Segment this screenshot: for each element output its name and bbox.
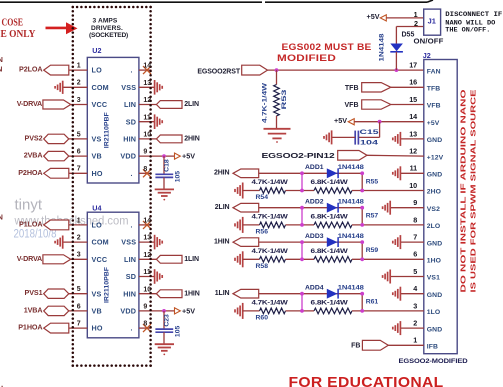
svg-text:R60: R60 [256,315,269,322]
svg-text:PVS1: PVS1 [25,288,43,297]
svg-text:VS: VS [92,289,102,298]
svg-text:.: . [1,380,3,387]
svg-text:1HIN: 1HIN [184,290,200,297]
svg-text:SD: SD [126,272,136,281]
svg-text:1: 1 [413,336,417,345]
svg-text:N: N [0,55,3,64]
svg-text:N: N [0,213,3,222]
svg-text:14: 14 [143,63,151,70]
svg-text:12: 12 [409,147,417,156]
svg-text:1N4148: 1N4148 [338,164,364,171]
svg-text:2: 2 [414,19,418,28]
svg-text:VFB: VFB [427,103,441,110]
svg-text:DRIVERS.: DRIVERS. [91,25,123,32]
svg-text:V-DRVA: V-DRVA [17,99,42,108]
svg-text:1HO: 1HO [427,258,441,265]
svg-text:4.7K-1/4W: 4.7K-1/4W [252,300,289,307]
svg-text:VCC: VCC [92,255,108,264]
svg-text:104: 104 [360,140,378,147]
svg-text:N: N [0,65,2,74]
svg-text:VSS: VSS [121,238,136,247]
svg-text:7: 7 [413,233,417,242]
svg-text:1LO: 1LO [427,309,441,316]
svg-text:2LIN: 2LIN [215,204,230,211]
svg-text:2HIN: 2HIN [214,170,230,177]
svg-text:R56: R56 [256,229,269,236]
svg-text:ADD4: ADD4 [305,284,324,291]
svg-text:12: 12 [143,97,151,104]
svg-text:10: 10 [143,132,151,139]
svg-text:9: 9 [143,149,147,156]
svg-text:4: 4 [413,284,417,293]
svg-text:EGSOO2-PIN12: EGSOO2-PIN12 [262,153,335,160]
svg-text:EGSOO2-MODIFIED: EGSOO2-MODIFIED [399,358,468,365]
svg-text:8: 8 [143,321,147,328]
svg-text:4.7K-1/4W: 4.7K-1/4W [252,179,289,186]
svg-text:1N4148: 1N4148 [338,233,364,240]
svg-text:HO: HO [92,324,103,333]
svg-text:COM: COM [92,238,109,247]
svg-text:LIN: LIN [124,100,136,109]
svg-text:J2: J2 [423,51,431,60]
svg-text:6: 6 [413,250,417,259]
svg-text:ADD3: ADD3 [305,233,324,240]
svg-text:.: . [131,171,133,178]
svg-text:R61: R61 [366,299,379,306]
svg-text:7: 7 [77,321,81,328]
svg-text:U4: U4 [92,204,101,213]
svg-text:6.8K-1/4W: 6.8K-1/4W [311,179,349,186]
svg-text:6: 6 [77,303,81,310]
svg-text:1N4148: 1N4148 [378,33,385,61]
svg-text:8: 8 [143,166,147,173]
svg-text:13: 13 [143,80,151,87]
svg-text:4.7K-1/4W: 4.7K-1/4W [261,82,268,123]
svg-text:TFB: TFB [345,85,359,92]
svg-text:.: . [131,222,133,229]
svg-text:6.8K-1/4W: 6.8K-1/4W [311,214,349,221]
svg-text:COSE: COSE [2,17,24,28]
svg-text:HIN: HIN [123,289,136,298]
svg-text:VB: VB [92,307,102,316]
svg-text:13: 13 [409,129,417,138]
svg-text:SD: SD [126,117,136,126]
svg-text:R59: R59 [366,247,379,254]
svg-text:VDD: VDD [120,307,136,316]
svg-text:tinyt: tinyt [15,197,43,214]
svg-text:VS1: VS1 [427,275,440,282]
svg-text:LO: LO [92,221,103,230]
svg-text:10: 10 [409,181,417,190]
svg-text:GND: GND [427,326,442,333]
svg-text:ADD1: ADD1 [305,164,324,171]
svg-text:4.7K-1/4W: 4.7K-1/4W [252,214,289,221]
svg-text:THE ON/OFF.: THE ON/OFF. [445,26,490,33]
svg-text:P1LOA: P1LOA [19,219,42,228]
svg-text:2: 2 [77,80,81,87]
svg-text:EGS002 MUST BE: EGS002 MUST BE [282,42,372,52]
svg-text:C15: C15 [360,129,379,136]
svg-text:3: 3 [413,301,417,310]
svg-text:15: 15 [409,95,417,104]
svg-text:2LIN: 2LIN [184,101,199,108]
svg-text:R57: R57 [366,213,379,220]
svg-text:(SOCKETED): (SOCKETED) [89,32,128,39]
svg-text:+5V: +5V [367,12,380,21]
svg-text:GND: GND [427,172,442,179]
svg-text:2VBA: 2VBA [24,151,43,160]
svg-text:16: 16 [409,78,417,87]
svg-text:1N4148: 1N4148 [338,198,364,205]
svg-text:VS2: VS2 [427,206,440,213]
svg-text:6.8K-1/4W: 6.8K-1/4W [311,248,349,255]
svg-text:11: 11 [410,164,418,173]
svg-text:3: 3 [77,252,81,259]
svg-text:2018/10/8: 2018/10/8 [14,229,57,241]
svg-text:DISCONNECT IF: DISCONNECT IF [445,11,502,18]
svg-text:5: 5 [413,267,417,276]
svg-text:PVS2: PVS2 [25,133,43,142]
svg-text:2: 2 [413,319,417,328]
svg-text:MODIFIED: MODIFIED [277,53,336,63]
svg-text:+5V: +5V [182,307,195,316]
svg-text:GND: GND [427,240,442,247]
svg-text:DO NOT INSTALL IF ARDUINO NANO: DO NOT INSTALL IF ARDUINO NANO [458,89,467,292]
svg-text:5: 5 [77,286,81,293]
svg-text:11: 11 [143,114,151,121]
svg-text:2HO: 2HO [427,189,441,196]
svg-text:14: 14 [409,112,417,121]
svg-text:R53: R53 [281,89,288,110]
svg-text:9: 9 [413,198,417,207]
svg-text:P1HOA: P1HOA [18,323,42,332]
svg-text:FAN: FAN [427,68,441,75]
svg-text:.: . [131,326,133,333]
svg-text:IR2110PBF: IR2110PBF [104,267,111,303]
svg-text:7: 7 [77,166,81,173]
svg-text:6: 6 [77,149,81,156]
svg-text:VCC: VCC [92,100,108,109]
svg-text:3: 3 [77,97,81,104]
svg-text:4.7K-1/4W: 4.7K-1/4W [252,248,289,255]
svg-text:1HIN: 1HIN [214,238,230,245]
svg-text:VDD: VDD [120,152,136,161]
svg-text:14: 14 [143,218,151,225]
svg-text:+5V: +5V [427,120,440,127]
svg-text:C18: C18 [164,159,171,172]
svg-text:17: 17 [409,61,417,70]
svg-text:NANO WILL DO: NANO WILL DO [445,19,495,26]
svg-text:3 AMPS: 3 AMPS [93,18,118,25]
svg-text:U2: U2 [92,46,101,55]
svg-text:105: 105 [174,326,181,338]
svg-text:R55: R55 [366,178,379,185]
svg-text:GND: GND [427,137,442,144]
svg-text:P2HOA: P2HOA [18,168,42,177]
svg-text:HO: HO [92,169,103,178]
svg-text:VS: VS [92,135,102,144]
svg-text:1LIN: 1LIN [215,290,230,297]
svg-text:2HIN: 2HIN [184,136,200,143]
svg-text:+5V: +5V [334,116,347,125]
svg-text:FB: FB [351,343,360,350]
svg-text:VFB: VFB [345,102,359,109]
svg-text:VB: VB [92,152,102,161]
svg-text:EGSOO2RST: EGSOO2RST [197,68,240,75]
svg-text:IFB: IFB [427,344,438,351]
svg-text:2LO: 2LO [427,223,441,230]
svg-text:E ONLY: E ONLY [1,29,37,40]
svg-text:C23: C23 [164,314,171,327]
svg-text:+12V: +12V [427,154,444,161]
svg-text:1: 1 [77,63,81,70]
svg-text:IR2110PBF: IR2110PBF [104,112,111,148]
svg-text:V-DRVA: V-DRVA [17,254,42,263]
svg-text:VSS: VSS [121,83,136,92]
svg-text:P2LOA: P2LOA [19,65,42,74]
svg-text:ON/OFF: ON/OFF [414,36,444,45]
svg-text:LO: LO [92,66,103,75]
svg-text:1N4148: 1N4148 [338,284,364,291]
svg-text:10: 10 [143,286,151,293]
svg-text:9: 9 [143,304,147,311]
svg-text:+5V: +5V [182,152,195,161]
svg-text:1VBA: 1VBA [24,305,43,314]
svg-text:12: 12 [143,252,151,259]
svg-text:1LIN: 1LIN [184,256,199,263]
svg-text:2: 2 [77,235,81,242]
svg-text:J1: J1 [428,16,436,25]
svg-text:8: 8 [413,215,417,224]
svg-text:R54: R54 [256,194,269,201]
svg-text:6.8K-1/4W: 6.8K-1/4W [311,300,349,307]
svg-text:ADD2: ADD2 [305,198,324,205]
svg-text:D55: D55 [402,32,415,39]
svg-text:R58: R58 [256,263,269,270]
svg-text:13: 13 [143,235,151,242]
svg-text:COM: COM [92,83,109,92]
svg-text:TFB: TFB [427,86,441,93]
svg-text:HIN: HIN [123,135,136,144]
svg-text:5: 5 [77,131,81,138]
svg-text:1: 1 [414,10,418,19]
svg-text:11: 11 [143,269,151,276]
svg-text:105: 105 [174,171,181,183]
svg-text:LIN: LIN [124,255,136,264]
svg-text:1: 1 [77,217,81,224]
svg-text:FOR EDUCATIONAL: FOR EDUCATIONAL [289,374,444,387]
svg-text:GND: GND [427,292,442,299]
svg-text:.: . [131,68,133,75]
svg-text:IS USED FOR SPWM SIGNAL SOURCE: IS USED FOR SPWM SIGNAL SOURCE [469,89,478,292]
